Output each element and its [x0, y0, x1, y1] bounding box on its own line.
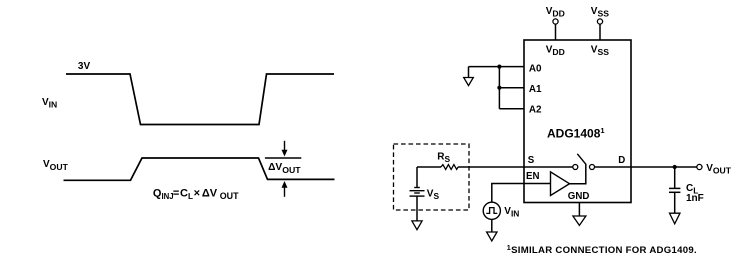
- wire A2: [499, 108, 524, 110]
- svg-text:D: D: [618, 155, 625, 166]
- svg-text:ΔVOUT: ΔVOUT: [268, 162, 301, 175]
- IC U1 ADG1408 box: [524, 40, 631, 203]
- svg-text:A0: A0: [529, 63, 542, 74]
- wire A1: [499, 87, 524, 89]
- wire EN: [492, 184, 524, 203]
- junction dot output: [673, 165, 677, 169]
- supply VSS terminal circle: [597, 19, 602, 24]
- buffer driver triangle: [551, 172, 570, 196]
- ground GND: [573, 216, 586, 225]
- wire S left: [417, 166, 441, 168]
- svg-text:VOUT: VOUT: [706, 163, 732, 176]
- svg-text:VS: VS: [427, 189, 440, 202]
- junction dot A1: [497, 86, 501, 90]
- arrow up: [282, 181, 288, 197]
- svg-text:RS: RS: [437, 151, 450, 164]
- wire VIN waveform: [66, 74, 334, 125]
- wire A0: [469, 66, 525, 68]
- arrow down: [282, 141, 288, 157]
- wire battery to ground: [416, 196, 418, 221]
- wire address bus vertical: [498, 67, 500, 109]
- svg-text:VDD: VDD: [546, 44, 565, 57]
- junction dot A0: [497, 65, 501, 69]
- wire D output: [595, 166, 697, 168]
- wire to capacitor: [674, 167, 676, 188]
- svg-text:1SIMILAR CONNECTION FOR ADG140: 1SIMILAR CONNECTION FOR ADG1409.: [507, 243, 697, 256]
- wire capacitor to ground: [674, 192, 676, 213]
- switch pole circle right: [590, 165, 595, 170]
- wire switch control: [570, 164, 586, 184]
- svg-text:3V: 3V: [78, 61, 91, 72]
- switch blade: [577, 154, 586, 164]
- svg-text:VOUT: VOUT: [43, 159, 69, 172]
- svg-text:VSS: VSS: [591, 44, 609, 57]
- svg-text:EN: EN: [526, 171, 539, 182]
- ground battery: [412, 221, 422, 230]
- supply VDD terminal circle: [553, 19, 558, 24]
- svg-text:VSS: VSS: [591, 6, 609, 18]
- wire VOUT waveform: [64, 158, 335, 180]
- svg-text:A1: A1: [529, 84, 542, 95]
- dashed source box: [394, 144, 470, 210]
- battery VS: [410, 167, 425, 196]
- svg-text:S: S: [528, 155, 535, 166]
- svg-text:GND: GND: [568, 191, 590, 202]
- svg-text:VIN: VIN: [42, 97, 57, 110]
- svg-text:×: ×: [194, 187, 200, 199]
- svg-text:1nF: 1nF: [686, 193, 704, 204]
- capacitor CL: [669, 188, 680, 192]
- svg-text:VIN: VIN: [504, 206, 519, 219]
- wire S to box: [458, 166, 524, 168]
- ground CL: [670, 213, 681, 224]
- svg-text:VDD: VDD: [546, 6, 565, 18]
- svg-text:ADG14081: ADG14081: [547, 126, 605, 141]
- source VIN pulse generator: [483, 202, 500, 219]
- wire VSS to box: [599, 24, 601, 40]
- terminal VOUT circle: [697, 164, 702, 169]
- equation QINJ = CL x dVOUT: [153, 187, 239, 201]
- ground address pins: [464, 67, 474, 86]
- svg-text:A2: A2: [529, 105, 542, 116]
- wire VDD to box: [555, 24, 557, 40]
- resistor RS: [441, 165, 458, 170]
- dimension reference line: [265, 157, 301, 159]
- wire S inside box: [524, 166, 573, 168]
- wire EN inside box: [524, 183, 551, 185]
- switch pole circle left: [573, 165, 578, 170]
- svg-text:=: =: [173, 187, 179, 199]
- wire GND to ground: [578, 203, 580, 217]
- ground VIN: [487, 232, 497, 241]
- wire VIN to ground: [491, 220, 493, 233]
